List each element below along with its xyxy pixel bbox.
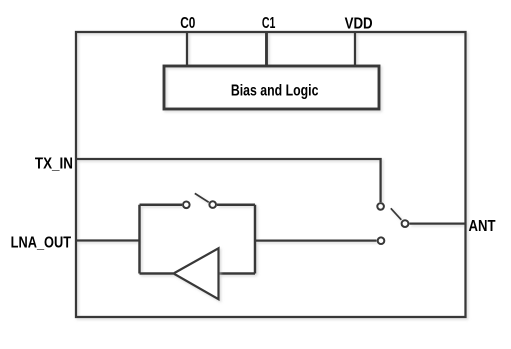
switch SW1 contact left [183,202,190,209]
svg-text:LNA_OUT: LNA_OUT [11,234,72,252]
switch SW1 contact right [209,201,216,208]
wire C0 stub [186,32,188,66]
switch SW2 throw TX contact [377,203,384,210]
svg-text:Bias and Logic: Bias and Logic [231,82,319,100]
switch SW2 throw LNA contact [378,237,385,244]
wire LNA_OUT [76,239,140,241]
svg-text:TX_IN: TX_IN [35,155,73,172]
svg-text:VDD: VDD [345,15,373,32]
label LNA_OUT [11,234,72,252]
amp loop box bottom edge (gap for amplifier) [140,272,256,275]
svg-text:C0: C0 [180,13,195,31]
wire ANT [409,222,465,224]
wire amp output to switch [255,239,377,241]
label C0 [180,13,195,31]
block Bias and Logic [164,66,379,109]
label VDD [345,15,373,32]
amp loop box top edge (gap for bypass switch) [140,203,256,206]
svg-text:C1: C1 [262,14,276,32]
chip outline [76,32,466,317]
svg-text:ANT: ANT [469,218,496,235]
wire C1 stub [265,32,268,66]
switch SW1 lever (bypass, open) [195,193,209,202]
switch SW2 lever (SPDT pole toward TX throw) [391,208,402,220]
switch SW2 pole contact [402,220,409,227]
label Bias and Logic [231,82,319,100]
amp loop box left edge [138,205,141,274]
label C1 [262,14,276,32]
label ANT [469,218,496,235]
wire TX_IN [76,159,381,202]
wire VDD stub [354,32,356,66]
amp loop box right edge [254,205,257,274]
label TX_IN [35,155,73,172]
amplifier A1 triangle [174,248,219,299]
